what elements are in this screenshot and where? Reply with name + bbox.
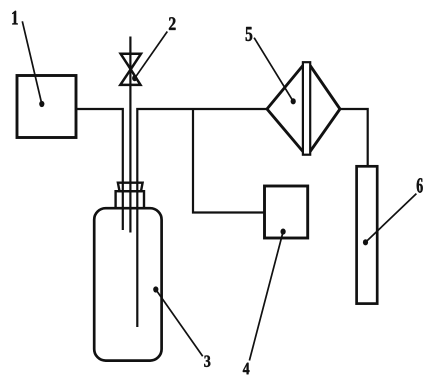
label 2 leader: [135, 32, 168, 79]
label 5 dot: [291, 98, 296, 104]
label 3 dot: [153, 286, 158, 292]
flowmeter 5: right triangle: [310, 66, 340, 152]
label 2 dot: [132, 75, 137, 81]
label 1 dot: [39, 101, 44, 107]
column 6: [357, 166, 378, 303]
main wire: deep tube up from bottle, right to flowmeter 5: [137, 109, 266, 327]
label 1: [12, 11, 17, 25]
label 4: [243, 363, 250, 374]
box 4: [265, 186, 308, 238]
branch wire down to box 4: [193, 109, 265, 213]
label 4 leader: [249, 232, 283, 361]
label 3 leader: [156, 290, 203, 357]
label 1 leader: [22, 21, 42, 104]
bottle cap (trapezoid): [118, 183, 143, 192]
label 5: [246, 27, 253, 41]
label 3: [204, 356, 210, 367]
flowmeter 5: left triangle: [267, 66, 303, 152]
wire valve stem into bottle (middle tube): [129, 37, 131, 233]
wire flowmeter to column 6: [340, 109, 368, 166]
box 1: [17, 76, 76, 138]
label 5 leader: [254, 38, 293, 102]
valve V (2): [120, 54, 141, 85]
label 6 leader: [366, 194, 417, 243]
label 6: [417, 178, 423, 193]
label 2: [169, 17, 176, 30]
label 4 dot: [281, 229, 286, 235]
flowmeter 5: center bar: [303, 62, 310, 155]
bottle 3: [94, 208, 161, 360]
bottle neck: [116, 191, 144, 208]
label 6 dot: [363, 239, 368, 245]
wire box1 to bottle left tube: [76, 109, 123, 230]
